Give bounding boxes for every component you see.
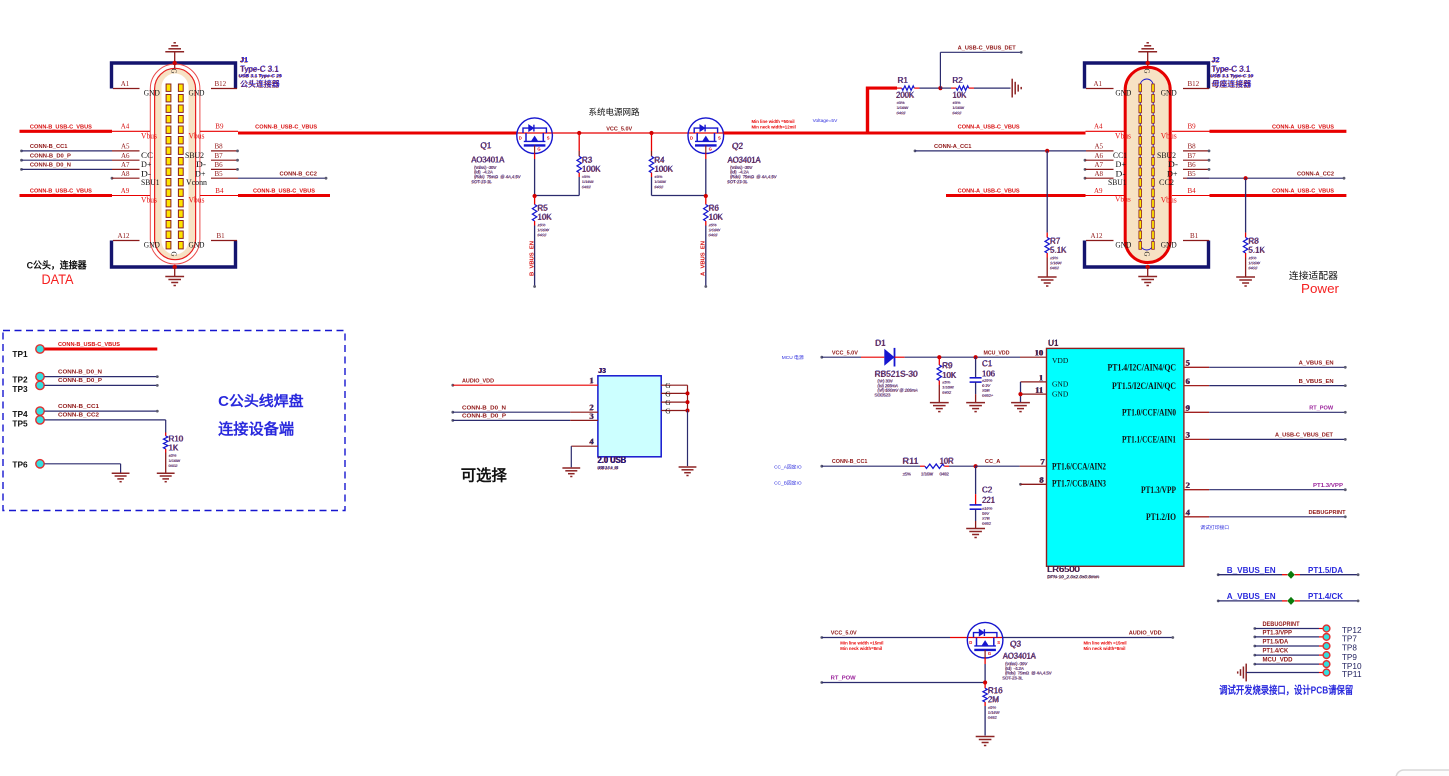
svg-text:R3: R3 [582, 156, 593, 165]
min width note (right of Q3) [1084, 640, 1127, 651]
label Power [1301, 281, 1340, 296]
wire CONN-B_USB-C_VBUS (J1 B9) [189, 123, 517, 141]
svg-text:母座连接器: 母座连接器 [1212, 79, 1252, 89]
svg-text:9: 9 [1186, 403, 1190, 413]
J1 pin B6 stub [195, 161, 239, 178]
svg-text:G: G [1143, 69, 1151, 74]
dashed annotation box [3, 331, 345, 511]
svg-text:A12: A12 [118, 232, 131, 240]
svg-text:DATA: DATA [42, 271, 75, 287]
svg-text:Vbus: Vbus [141, 195, 157, 205]
svg-text:A8: A8 [1095, 170, 1104, 178]
svg-text:R9: R9 [943, 361, 954, 370]
ground (J3 pin 4) [562, 468, 580, 477]
svg-text:1: 1 [590, 375, 594, 385]
svg-text:CONN-B_CC2: CONN-B_CC2 [58, 413, 99, 419]
ground (U1 GND) [1011, 403, 1030, 412]
resistor R1 [897, 86, 940, 90]
svg-text:Q2: Q2 [733, 142, 744, 151]
wire CONN-A_USB-C_VBUS (J2 A9) [946, 189, 1125, 196]
svg-text:VCC_5.0V: VCC_5.0V [831, 631, 857, 637]
svg-text:C2: C2 [982, 485, 993, 494]
svg-text:A7: A7 [121, 161, 130, 169]
svg-text:U1: U1 [1048, 339, 1059, 348]
J1 pin B1 stub [189, 232, 238, 249]
label optional [461, 467, 508, 485]
test point TP10 [1253, 658, 1361, 671]
test point TP1 [12, 342, 157, 359]
svg-text:G: G [537, 147, 540, 152]
wire CC_A to U1 pin 7 [974, 456, 1047, 468]
label debug interface note [1219, 683, 1353, 696]
svg-text:A12: A12 [1091, 232, 1104, 240]
R1 labels [896, 76, 915, 116]
label connect adapter [1289, 269, 1338, 282]
U1 GND pins wiring [1018, 372, 1046, 402]
wire Q1 drain to R5 [533, 154, 580, 199]
svg-text:CONN-B_CC1: CONN-B_CC1 [832, 459, 868, 465]
svg-text:G: G [170, 69, 178, 74]
svg-text:GND: GND [1052, 379, 1069, 388]
svg-text:C公头线焊盘: C公头线焊盘 [218, 392, 304, 410]
svg-text:GND: GND [144, 88, 160, 98]
svg-text:1/16W: 1/16W [922, 471, 934, 476]
svg-text:S: S [547, 135, 550, 140]
svg-text:PT1.3/VPP: PT1.3/VPP [1313, 483, 1343, 489]
svg-text:A7: A7 [1095, 161, 1104, 169]
svg-text:R5: R5 [538, 204, 549, 213]
svg-text:A8: A8 [121, 170, 130, 178]
connector J3 body [597, 368, 661, 471]
svg-text:Q1: Q1 [481, 141, 492, 150]
svg-text:CONN-B_D0_N: CONN-B_D0_N [58, 369, 102, 375]
svg-text:SOT-23-3L: SOT-23-3L [728, 179, 749, 184]
test point TP6 [12, 459, 120, 473]
svg-text:10K: 10K [709, 213, 724, 222]
svg-text:连接设备端: 连接设备端 [218, 420, 294, 438]
svg-text:4: 4 [590, 436, 595, 446]
J2 designator and type labels [1210, 57, 1254, 89]
wire CONN-B_USB-C_VBUS (J1 B4) [189, 187, 331, 205]
label C male pad [218, 392, 304, 410]
net tie A_VBUS_EN / PT1.4/CK [1217, 591, 1360, 605]
net tie B_VBUS_EN / PT1.5/DA [1217, 565, 1360, 579]
min width note (rail) [752, 119, 796, 129]
svg-text:Vbus: Vbus [1161, 195, 1177, 205]
svg-text:PT1.5/I2C/AIN/QC: PT1.5/I2C/AIN/QC [1112, 382, 1176, 392]
svg-text:DEBUGPRINT: DEBUGPRINT [1309, 510, 1347, 516]
label C male connector [27, 259, 87, 271]
svg-text:PT1.6/CCA/AIN2: PT1.6/CCA/AIN2 [1052, 462, 1106, 472]
svg-text:SOT-23-3L: SOT-23-3L [1003, 675, 1024, 680]
resistor R16 [983, 683, 987, 736]
svg-text:A1: A1 [1094, 80, 1103, 88]
svg-text:CONN-B_D0_P: CONN-B_D0_P [462, 414, 506, 420]
ground (C1) [966, 403, 985, 412]
wire CONN-B_CC1 (J1 A5) [20, 144, 139, 152]
R7 labels [1050, 237, 1068, 271]
test point TP9 [1253, 649, 1357, 662]
svg-text:D: D [519, 135, 522, 140]
resistor R3 [577, 131, 581, 196]
svg-text:0402: 0402 [582, 184, 592, 189]
svg-text:5: 5 [1186, 358, 1190, 368]
svg-text:DFN-10_2.0x2.0x0.8mm: DFN-10_2.0x2.0x0.8mm [1048, 574, 1101, 579]
J2 pin A5 label [1095, 143, 1128, 160]
svg-text:A4: A4 [1094, 123, 1103, 131]
test point TP4 [12, 404, 158, 419]
svg-text:AUDIO_VDD: AUDIO_VDD [1129, 631, 1162, 637]
svg-text:Vconn: Vconn [186, 177, 208, 187]
svg-text:G: G [1143, 252, 1151, 257]
svg-text:CONN-B_USB-C_VBUS: CONN-B_USB-C_VBUS [58, 342, 120, 348]
wire AUDIO_VDD [1003, 631, 1174, 639]
J3 shield pins G [661, 381, 689, 466]
svg-text:Vbus: Vbus [1115, 130, 1131, 140]
svg-text:10R: 10R [940, 457, 954, 466]
U1 pin names [1052, 356, 1176, 523]
label Voltage=5V [813, 118, 838, 124]
svg-text:GND: GND [1115, 88, 1131, 98]
Q2 labels [727, 142, 777, 185]
svg-text:0402: 0402 [655, 184, 665, 189]
wire CONN-B_D0_P (J3 pin 3) [451, 411, 598, 422]
J2 shell pin G bottom [1143, 252, 1151, 270]
svg-text:4: 4 [1186, 507, 1191, 517]
svg-text:B12: B12 [215, 80, 227, 88]
wire RT_POW [820, 676, 985, 684]
svg-text:10: 10 [1035, 347, 1044, 357]
J1 pin A12 stub [113, 232, 160, 249]
J1 pin A4 label [121, 123, 158, 141]
svg-text:Min neck width=8mil: Min neck width=8mil [840, 646, 882, 651]
svg-text:PT1.1/CCE/AIN1: PT1.1/CCE/AIN1 [1122, 436, 1176, 446]
svg-text:PT1.3/VPP: PT1.3/VPP [1263, 630, 1293, 636]
Q1 labels [471, 141, 521, 185]
svg-text:GND: GND [144, 240, 160, 250]
svg-text:TP6: TP6 [12, 459, 28, 469]
svg-text:Vbus: Vbus [189, 195, 205, 205]
ground (C2) [966, 529, 985, 538]
svg-text:0402: 0402 [988, 715, 998, 720]
wire Q3 drain [983, 658, 987, 685]
svg-text:Voltage=5V: Voltage=5V [813, 118, 838, 124]
svg-text:CONN-A_USB-C_VBUS: CONN-A_USB-C_VBUS [1272, 189, 1334, 195]
svg-text:连接适配器: 连接适配器 [1289, 269, 1338, 282]
svg-text:CC_B固定IO: CC_B固定IO [774, 480, 802, 487]
svg-text:Vbus: Vbus [141, 130, 157, 140]
svg-text:B7: B7 [1188, 152, 1197, 160]
svg-text:B1: B1 [1190, 232, 1199, 240]
R8 labels [1248, 237, 1266, 271]
connector J1 pads [166, 84, 183, 249]
svg-text:CONN-B_USB-C_VBUS: CONN-B_USB-C_VBUS [255, 125, 317, 131]
svg-text:调试打印接口: 调试打印接口 [1200, 524, 1229, 531]
svg-text:MCU_VDD: MCU_VDD [984, 350, 1010, 356]
svg-text:DEBUGPRINT: DEBUGPRINT [1263, 622, 1300, 628]
svg-text:B7: B7 [215, 152, 224, 160]
J2 pin A8 stub [1084, 170, 1127, 187]
test point TP12 [1253, 622, 1361, 635]
wire CONN-B_D0_N (J3 pin 2) [451, 402, 598, 413]
svg-text:A_VBUS_EN: A_VBUS_EN [1299, 361, 1334, 367]
R2 labels [952, 76, 967, 116]
svg-text:CONN-B_USB-C_VBUS: CONN-B_USB-C_VBUS [253, 189, 315, 195]
svg-text:LR6500: LR6500 [1048, 564, 1081, 574]
svg-text:A_VBUS_EN: A_VBUS_EN [1227, 591, 1276, 601]
svg-text:RB521S-30: RB521S-30 [875, 370, 918, 379]
diode D1 [884, 348, 904, 367]
svg-text:5.1K: 5.1K [1249, 246, 1266, 255]
svg-text:R16: R16 [988, 686, 1003, 695]
svg-text:GND: GND [189, 88, 205, 98]
svg-text:GND: GND [1161, 240, 1177, 250]
svg-text:0402: 0402 [1249, 265, 1259, 270]
svg-text:R7: R7 [1050, 237, 1061, 246]
ground (R2) [1012, 79, 1021, 98]
resistor R7 [1045, 151, 1049, 277]
wire CONN-A_CC2 (J2 B5) [1159, 170, 1345, 187]
capacitor C2 [970, 466, 982, 528]
wire J3 pin 4 to ground [571, 436, 598, 467]
svg-text:PT1.4/CK: PT1.4/CK [1263, 649, 1289, 655]
svg-text:D1: D1 [876, 339, 887, 348]
svg-text:0402: 0402 [982, 521, 992, 526]
test point TP5 [12, 413, 165, 433]
svg-text:可选择: 可选择 [461, 467, 508, 485]
J2 pin B8 stub [1157, 143, 1210, 160]
corner UI element [1396, 770, 1449, 776]
R5 labels [537, 204, 553, 238]
ground (bottom of J1) [165, 267, 184, 286]
resistor R8 [1243, 178, 1247, 277]
svg-text:R2: R2 [953, 76, 964, 85]
net label A_VBUS_EN [701, 241, 707, 276]
svg-text:PT1.4/CK: PT1.4/CK [1308, 591, 1344, 601]
svg-text:AO3401A: AO3401A [1003, 652, 1037, 661]
ground (TP6) [112, 473, 130, 482]
svg-text:B_VBUS_EN: B_VBUS_EN [1299, 379, 1334, 385]
R10 labels [168, 434, 184, 468]
svg-text:A_VBUS_EN: A_VBUS_EN [701, 241, 707, 276]
R4 labels [654, 156, 674, 190]
J1 pin A7 label [121, 161, 151, 178]
svg-text:AO3401A: AO3401A [472, 155, 506, 164]
svg-text:0402: 0402 [538, 232, 548, 237]
svg-text:SBU1: SBU1 [141, 177, 160, 187]
connector J2 body [1125, 67, 1170, 262]
wire Q2 drain to R6 [704, 154, 708, 199]
connector J2 bracket top [1085, 63, 1209, 89]
svg-text:CC2: CC2 [1159, 177, 1174, 187]
R11 labels [902, 457, 954, 477]
svg-text:SOT-23-3L: SOT-23-3L [472, 179, 493, 184]
resistor R6 [704, 196, 708, 288]
J2 shell pin G top [1143, 61, 1151, 74]
test point TP11 (ground) [1238, 664, 1362, 682]
svg-text:CONN-A_USB-C_VBUS: CONN-A_USB-C_VBUS [958, 125, 1020, 131]
svg-text:1: 1 [1039, 372, 1043, 382]
svg-text:AO3401A: AO3401A [728, 156, 762, 165]
svg-text:3: 3 [1186, 430, 1190, 440]
svg-text:GND: GND [1052, 390, 1069, 399]
J2 pin A6 stub [1084, 152, 1126, 169]
svg-text:0402: 0402 [943, 390, 953, 395]
wire VCC_5.0V to D1 [820, 350, 884, 358]
svg-text:8: 8 [1040, 475, 1044, 485]
svg-text:G: G [709, 147, 712, 152]
ground (R9) [930, 403, 949, 412]
ground (bottom of J2) [1138, 267, 1157, 286]
J2 pin B12 stub [1161, 80, 1209, 97]
wire CONN-A_CC1 (J2 A5) [914, 144, 1114, 153]
J2 pin A12 stub [1086, 232, 1131, 249]
svg-text:R1: R1 [898, 76, 909, 85]
resistor R11 [920, 464, 976, 468]
wire A_VBUS_EN (U1 pin 5) [1184, 358, 1347, 369]
wire CONN-A_USB-C_VBUS (J2 B9) [1161, 123, 1347, 141]
svg-text:0402+: 0402+ [982, 393, 994, 398]
svg-text:TP11: TP11 [1342, 669, 1362, 679]
svg-text:G: G [170, 252, 178, 257]
transistor Q3 [967, 622, 1003, 658]
svg-text:A1: A1 [121, 80, 130, 88]
svg-text:S: S [718, 135, 721, 140]
R3 labels [582, 156, 602, 190]
svg-text:调试开发烧录接口，设计PCB请保留: 调试开发烧录接口，设计PCB请保留 [1219, 683, 1353, 696]
svg-text:0402: 0402 [953, 110, 963, 115]
wire CONN-B_CC1 to R11 [820, 459, 920, 468]
svg-text:RT_POW: RT_POW [831, 676, 857, 682]
J2 pin A7 stub [1084, 161, 1126, 178]
J2 pin A4 label [1094, 123, 1131, 141]
resistor R4 [649, 131, 706, 196]
connector J1 body [150, 64, 200, 264]
net label B_VBUS_EN [530, 241, 536, 276]
ground (top of J2) [1138, 43, 1157, 82]
svg-text:0402: 0402 [169, 463, 179, 468]
wire VCC_5.0V rail [553, 126, 689, 133]
svg-text:Vbus: Vbus [1161, 130, 1177, 140]
svg-text:PT1.7/CCB/AIN3: PT1.7/CCB/AIN3 [1052, 480, 1106, 490]
svg-text:SOD523: SOD523 [875, 392, 891, 397]
svg-text:USB 3.1 Type-C 25: USB 3.1 Type-C 25 [239, 73, 283, 78]
svg-text:系统电源网路: 系统电源网路 [589, 106, 640, 117]
min width note (left of Q3) [840, 640, 883, 651]
wire RT_POW (U1 pin 9) [1184, 403, 1347, 414]
svg-text:G: G [665, 389, 671, 398]
svg-text:CONN-B_D0_P: CONN-B_D0_P [58, 378, 102, 384]
J1 pin B8 stub [185, 143, 239, 160]
test point TP8 [1253, 640, 1357, 653]
svg-text:CONN-A_CC2: CONN-A_CC2 [1297, 171, 1334, 177]
wire CONN-B_D0_N (J1 A7) [20, 163, 139, 171]
resistor R9 [937, 357, 941, 402]
resistor R2 [940, 86, 1010, 90]
svg-text:GND: GND [1161, 88, 1177, 98]
J1 pin B12 stub [189, 80, 238, 97]
wire CONN-B_CC2 (J1 B5) [186, 170, 327, 187]
wire CONN-A_USB-C_VBUS (J2 B4) [1161, 187, 1347, 205]
label debug print interface [1200, 524, 1229, 531]
svg-text:G: G [665, 407, 671, 416]
svg-text:Min line width =15mil: Min line width =15mil [840, 640, 883, 645]
J1 pin A6 label [121, 152, 152, 169]
svg-text:Vbus: Vbus [1115, 195, 1131, 204]
ground (R8) [1236, 277, 1255, 286]
wire A_USB-C_VBUS_DET (U1 pin 3) [1184, 430, 1347, 441]
wire VBUS tap to R1 [866, 87, 897, 135]
Q3 labels [1002, 640, 1052, 681]
svg-text:VDD: VDD [1052, 356, 1069, 365]
svg-text:Min line width =50mil: Min line width =50mil [752, 119, 795, 124]
J1 pin B7 stub [196, 152, 239, 169]
svg-text:TP3: TP3 [12, 384, 28, 394]
svg-text:CONN-B_USB-C_VBUS: CONN-B_USB-C_VBUS [30, 125, 92, 131]
svg-text:B5: B5 [1188, 170, 1197, 178]
svg-text:2.0 USB: 2.0 USB [598, 455, 627, 465]
U1 pin 8 stub [1019, 475, 1046, 486]
ground (R16) [976, 737, 995, 746]
connector J2 pads [1139, 84, 1154, 249]
wire B_VBUS_EN (U1 pin 6) [1184, 376, 1347, 387]
svg-text:B9: B9 [1188, 123, 1197, 131]
svg-text:A6: A6 [1095, 152, 1104, 160]
svg-text:CONN-B_D0_P: CONN-B_D0_P [30, 153, 71, 159]
svg-text:R4: R4 [655, 156, 666, 165]
svg-text:0402: 0402 [1050, 265, 1060, 270]
svg-text:Power: Power [1301, 281, 1340, 296]
ground (R7) [1038, 277, 1057, 286]
label DATA [42, 271, 75, 287]
transistor Q1 [517, 118, 553, 154]
svg-text:CC_A: CC_A [985, 459, 1001, 465]
J1 shell pin G top [170, 61, 178, 74]
svg-text:200K: 200K [897, 91, 916, 100]
svg-text:PT1.2/IO: PT1.2/IO [1146, 513, 1176, 523]
transistor Q2 [688, 118, 724, 154]
svg-text:Min neck width=12mil: Min neck width=12mil [752, 125, 796, 130]
svg-text:Min neck width=8mil: Min neck width=8mil [1084, 646, 1126, 651]
wire VBUS A side [724, 131, 1011, 134]
svg-text:CONN-A_USB-C_VBUS: CONN-A_USB-C_VBUS [958, 189, 1020, 195]
svg-text:5.1K: 5.1K [1050, 246, 1067, 255]
svg-text:11: 11 [1035, 385, 1043, 395]
C1 labels [982, 359, 996, 398]
label connect device side [218, 420, 294, 438]
svg-text:J3: J3 [599, 368, 607, 375]
svg-text:B6: B6 [215, 161, 224, 169]
test point TP7 [1253, 630, 1357, 643]
J2 pin B6 stub [1167, 161, 1210, 178]
J1 shell pin G bottom [170, 252, 178, 270]
label CC_A fixed IO [774, 463, 802, 470]
svg-text:2M: 2M [988, 695, 999, 704]
ground (J3 shield) [679, 467, 697, 476]
J1 pin A1 stub [113, 80, 160, 97]
svg-text:0402: 0402 [940, 471, 950, 476]
C2 labels [982, 485, 996, 526]
resistor R10 [164, 433, 168, 474]
svg-text:TP1: TP1 [12, 349, 28, 359]
wire CONN-B_USB-C_VBUS (J1 A4) [20, 125, 151, 132]
svg-text:RT_POW: RT_POW [1309, 406, 1334, 412]
svg-text:GND: GND [1115, 240, 1131, 250]
label CC_B fixed IO [774, 480, 802, 487]
svg-text:USB 3.1 Type-C 19: USB 3.1 Type-C 19 [1211, 73, 1255, 78]
svg-text:CONN-B_D0_N: CONN-B_D0_N [30, 163, 71, 169]
svg-text:B12: B12 [1188, 80, 1200, 88]
